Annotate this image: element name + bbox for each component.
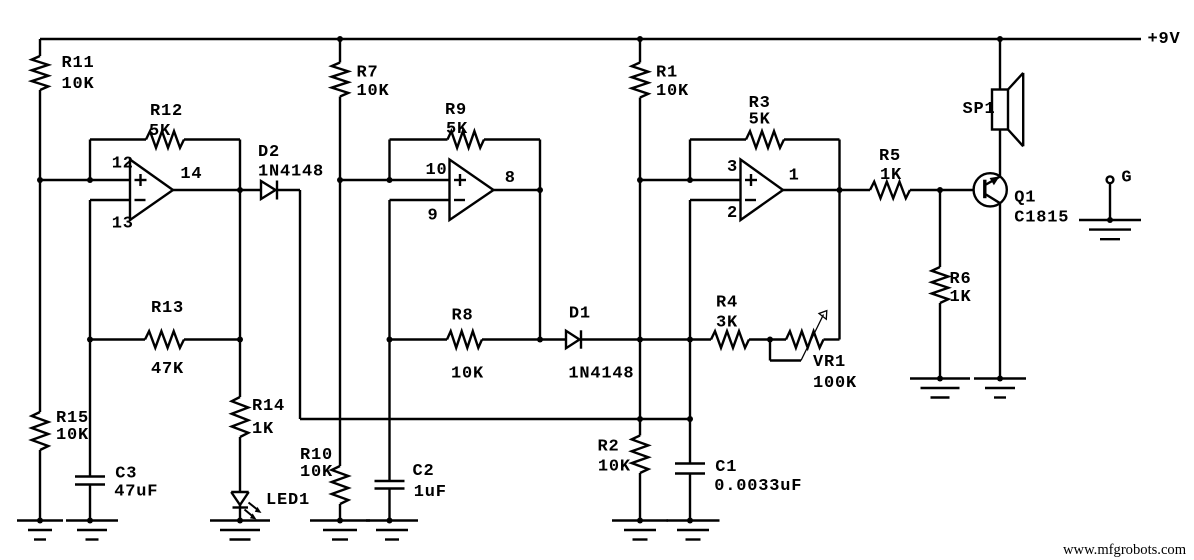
svg-text:R13: R13: [151, 299, 184, 318]
svg-text:8: 8: [505, 169, 516, 188]
svg-text:5K: 5K: [749, 111, 771, 130]
svg-text:0.0033uF: 0.0033uF: [714, 477, 802, 496]
svg-text:10K: 10K: [598, 458, 631, 477]
svg-text:1N4148: 1N4148: [568, 365, 634, 384]
svg-text:47K: 47K: [151, 360, 184, 379]
svg-text:www.mfgrobots.com: www.mfgrobots.com: [1063, 542, 1187, 558]
svg-text:R7: R7: [357, 64, 379, 83]
svg-text:LED1: LED1: [266, 491, 310, 510]
svg-text:VR1: VR1: [813, 353, 846, 372]
svg-text:1K: 1K: [252, 420, 274, 439]
svg-text:C1: C1: [715, 458, 737, 477]
svg-text:C3: C3: [115, 465, 137, 484]
svg-text:10K: 10K: [357, 82, 390, 101]
svg-text:2: 2: [727, 204, 738, 223]
svg-text:C1815: C1815: [1014, 209, 1069, 228]
svg-text:+9V: +9V: [1148, 30, 1181, 49]
svg-text:1K: 1K: [880, 166, 902, 185]
svg-text:10K: 10K: [656, 82, 689, 101]
svg-text:D1: D1: [569, 305, 591, 324]
svg-text:R5: R5: [879, 147, 901, 166]
svg-text:R6: R6: [950, 270, 972, 289]
svg-text:1K: 1K: [950, 288, 972, 307]
svg-text:9: 9: [428, 206, 439, 225]
svg-text:1N4148: 1N4148: [258, 163, 324, 182]
svg-text:1: 1: [789, 167, 800, 186]
svg-text:10K: 10K: [56, 426, 89, 445]
svg-text:C2: C2: [413, 462, 435, 481]
svg-text:10K: 10K: [62, 75, 95, 94]
svg-text:3K: 3K: [716, 314, 738, 333]
svg-text:100K: 100K: [813, 374, 857, 393]
svg-text:R11: R11: [62, 54, 95, 73]
svg-text:Q1: Q1: [1014, 189, 1036, 208]
svg-text:R14: R14: [252, 397, 285, 416]
svg-text:SP1: SP1: [963, 100, 996, 119]
svg-text:D2: D2: [258, 143, 280, 162]
svg-text:G: G: [1121, 169, 1132, 188]
svg-text:10K: 10K: [300, 463, 333, 482]
svg-text:R2: R2: [598, 438, 620, 457]
svg-text:R8: R8: [452, 307, 474, 326]
svg-text:R4: R4: [716, 293, 738, 312]
svg-text:10: 10: [426, 161, 448, 180]
svg-text:47uF: 47uF: [114, 482, 158, 501]
svg-text:14: 14: [180, 165, 202, 184]
svg-text:5K: 5K: [149, 122, 171, 141]
svg-text:12: 12: [112, 155, 134, 174]
svg-text:13: 13: [112, 215, 134, 234]
svg-text:R12: R12: [150, 102, 183, 121]
svg-text:10K: 10K: [451, 365, 484, 384]
svg-text:R1: R1: [656, 64, 678, 83]
svg-text:3: 3: [727, 158, 738, 177]
svg-text:1uF: 1uF: [414, 483, 447, 502]
svg-text:R9: R9: [445, 101, 467, 120]
svg-text:5K: 5K: [446, 120, 468, 139]
